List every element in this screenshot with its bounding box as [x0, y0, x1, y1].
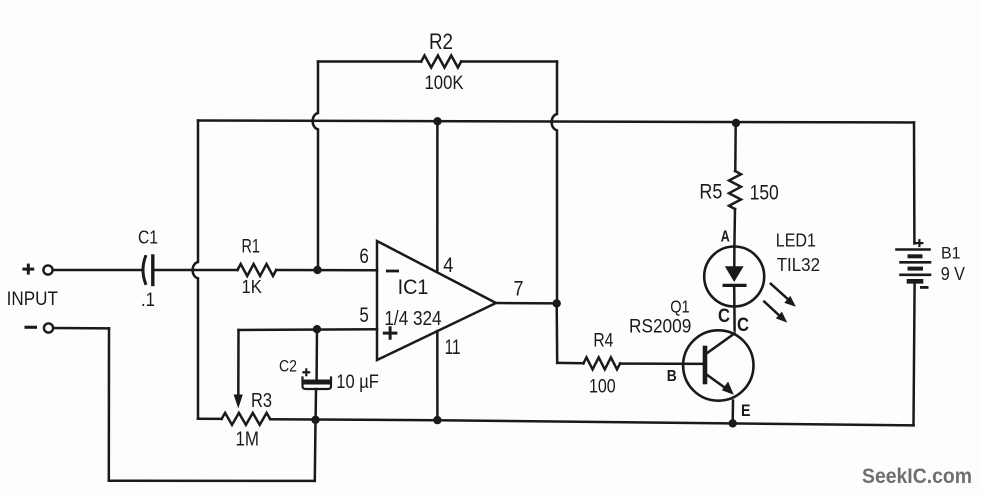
svg-text:R5: R5: [699, 181, 722, 204]
light arrow 1 shaft: [771, 284, 791, 302]
wire: R3 wiper arm: [237, 330, 240, 400]
input - terminal: [44, 323, 53, 332]
wire: pin 11 vertical: [436, 331, 439, 420]
junction dot: C2 / return / rail: [311, 416, 319, 424]
capacitor C2 top lead: [315, 329, 318, 379]
wire: return path bottom: [109, 480, 315, 483]
svg-text:Q1: Q1: [670, 296, 690, 316]
wire: R1 to op-amp pin 6: [276, 269, 377, 272]
svg-text:B1: B1: [941, 243, 961, 262]
LED1 anode wire inside: [733, 247, 736, 267]
resistor R3: [222, 413, 271, 425]
junction dot: pin4 / supply rail: [433, 117, 441, 125]
junction dot: pin11 / rail: [433, 416, 441, 424]
wire: supply rail to R5: [734, 123, 737, 171]
svg-text:7: 7: [514, 278, 524, 301]
light arrow 2 head: [776, 312, 787, 323]
transistor Q1 collector stroke: [707, 333, 735, 353]
wire: R2 left vertical with hop over supply rail: [313, 62, 318, 271]
capacitor C2 bottom lead: [314, 389, 317, 420]
LED1 cathode bar: [723, 284, 747, 287]
battery B1 plates: [897, 248, 930, 251]
svg-text:1M: 1M: [236, 429, 260, 451]
svg-text:TIL32: TIL32: [777, 255, 820, 275]
wire: - input to return path: [53, 327, 109, 330]
Q1 emitter arrowhead: [722, 382, 734, 395]
junction dot: pin5 / C2: [313, 325, 321, 333]
svg-text:C2: C2: [279, 357, 297, 376]
svg-text:R3: R3: [251, 390, 272, 412]
op-amp plus sign: [383, 332, 398, 335]
svg-text:R4: R4: [593, 331, 613, 352]
R3 wiper arrowhead: [234, 395, 243, 409]
op-amp IC1 triangle: [377, 241, 496, 360]
svg-text:A: A: [721, 229, 730, 246]
svg-text:R2: R2: [429, 29, 453, 54]
svg-text:150: 150: [750, 182, 779, 205]
LED1 diode triangle: [725, 266, 744, 282]
C2 + sign: [302, 371, 310, 373]
transistor Q1 emitter stroke: [707, 375, 730, 392]
wire: R4 to Q1 base: [620, 362, 703, 365]
wire: LED cathode to Q1 collector: [733, 307, 736, 331]
svg-text:9 V: 9 V: [941, 264, 965, 284]
svg-text:10 µF: 10 µF: [336, 372, 379, 393]
svg-text:LED1: LED1: [776, 231, 816, 251]
wire: pin 5 lead: [239, 328, 378, 331]
junction dot: pin7 / R2 / R4: [553, 299, 561, 307]
wire: to R4: [557, 362, 583, 365]
svg-text:E: E: [741, 401, 751, 420]
svg-text:R1: R1: [242, 237, 260, 258]
wire: R2 top left lead: [318, 60, 421, 63]
capacitor C2 plates: [305, 380, 329, 385]
junction dot: emitter / rail: [729, 419, 737, 427]
LED1 circle: [704, 247, 764, 307]
svg-text:IC1: IC1: [398, 276, 429, 299]
junction dot: R1 / R2 / pin6: [313, 266, 321, 274]
wire: pin 7 output lead: [496, 302, 557, 305]
capacitor C1: [143, 257, 146, 284]
wire: R5 to LED anode: [733, 209, 736, 247]
svg-text:100K: 100K: [425, 73, 464, 94]
wire: C1 to R1: [155, 269, 238, 272]
wire: R2 right vertical with hop over supply rail: [552, 62, 557, 304]
svg-text:4: 4: [443, 254, 454, 277]
battery + sign: [915, 242, 923, 244]
wire: + input to C1: [53, 269, 141, 272]
LED1 cathode wire inside: [733, 287, 736, 307]
resistor R4: [583, 357, 620, 369]
wire: top supply rail: [198, 121, 914, 123]
svg-text:C: C: [718, 306, 730, 327]
input + terminal: [43, 265, 52, 274]
wire: pin 4 vertical: [436, 121, 439, 272]
svg-text:1/4 324: 1/4 324: [384, 308, 441, 330]
wire: bottom rail: [270, 419, 913, 425]
transistor Q1 base bar: [703, 348, 708, 382]
svg-text:5: 5: [359, 304, 369, 327]
wire: pin 7 down to R4: [555, 303, 558, 363]
svg-text:1K: 1K: [242, 277, 262, 297]
wire: left supply drop with hop over input wire: [193, 121, 198, 419]
resistor R1: [238, 264, 277, 276]
resistor R5: [729, 171, 741, 209]
input - sign: [25, 326, 38, 329]
svg-text:100: 100: [589, 376, 616, 397]
svg-text:C: C: [737, 315, 749, 336]
battery B1 bottom wire: [914, 284, 915, 426]
junction dot: R5 / supply rail: [732, 119, 740, 127]
transistor Q1 circle: [683, 330, 753, 400]
light arrow 1 head: [784, 296, 796, 307]
svg-text:RS2009: RS2009: [629, 315, 691, 337]
svg-text:C1: C1: [138, 228, 158, 248]
light arrow 2 shaft: [764, 302, 782, 318]
svg-text:INPUT: INPUT: [7, 289, 59, 310]
svg-text:SeekIC.com: SeekIC.com: [862, 465, 972, 488]
battery B1 top wire: [913, 123, 916, 244]
wire: R2 top right lead: [461, 60, 557, 63]
svg-text:6: 6: [359, 245, 369, 268]
resistor R2: [421, 56, 461, 68]
svg-text:.1: .1: [141, 290, 155, 311]
svg-text:B: B: [667, 368, 677, 385]
wire: Q1 emitter to bottom rail: [731, 401, 734, 424]
battery - sign: [920, 286, 929, 289]
input + sign: [22, 268, 34, 271]
wire: bottom rail left segment: [198, 418, 222, 421]
wire: return path up to rail: [314, 420, 317, 481]
svg-text:11: 11: [445, 336, 461, 359]
wire: return path down: [108, 328, 111, 480]
op-amp minus sign: [386, 270, 399, 273]
